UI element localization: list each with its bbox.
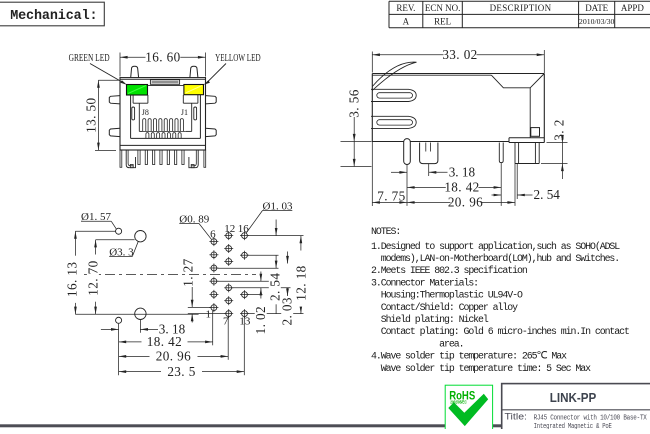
svg-text:ECN NO.: ECN NO. <box>425 3 461 13</box>
svg-text:2.Meets IEEE 802.3 specificati: 2.Meets IEEE 802.3 specification <box>371 265 528 276</box>
svg-text:REV.: REV. <box>396 3 415 13</box>
svg-text:Wave solder tip temperature ti: Wave solder tip temperature time: 5 Sec … <box>371 363 591 374</box>
svg-text:1. 02: 1. 02 <box>253 306 268 334</box>
svg-text:13. 50: 13. 50 <box>84 98 99 133</box>
svg-text:DESCRIPTION: DESCRIPTION <box>490 3 552 13</box>
svg-text:Mechanical:: Mechanical: <box>10 9 97 24</box>
svg-text:20. 96: 20. 96 <box>448 195 483 210</box>
svg-text:Housing:Thermoplastic UL94V-O: Housing:Thermoplastic UL94V-O <box>371 290 523 301</box>
svg-text:NOTES:: NOTES: <box>371 226 400 237</box>
svg-text:APPD: APPD <box>621 3 645 13</box>
svg-text:18. 42: 18. 42 <box>147 334 182 349</box>
svg-text:3.Connector Materials:: 3.Connector Materials: <box>371 277 478 288</box>
svg-text:1.Designed to support applicat: 1.Designed to support application,such a… <box>371 241 620 252</box>
svg-text:3. 18: 3. 18 <box>449 164 476 179</box>
svg-text:1. 27: 1. 27 <box>181 258 196 286</box>
svg-text:RJ45 Connector with 10/100 Bas: RJ45 Connector with 10/100 Base-TX <box>534 414 648 422</box>
svg-text:REL: REL <box>434 16 451 26</box>
svg-text:Shield plating: Nickel: Shield plating: Nickel <box>371 314 489 325</box>
svg-text:modems),LAN-on-Motherboard(LOM: modems),LAN-on-Motherboard(LOM),hub and … <box>371 253 619 264</box>
svg-text:12. 70: 12. 70 <box>85 260 100 295</box>
svg-text:LINK-PP: LINK-PP <box>550 390 597 405</box>
svg-text:Title:: Title: <box>505 412 528 422</box>
svg-text:GREEN LED: GREEN LED <box>69 53 110 64</box>
svg-text:13: 13 <box>239 316 251 328</box>
svg-text:23. 5: 23. 5 <box>167 364 195 379</box>
svg-text:20. 96: 20. 96 <box>156 349 191 364</box>
svg-text:16. 13: 16. 13 <box>64 262 79 297</box>
svg-text:16: 16 <box>238 223 250 235</box>
svg-text:area.: area. <box>371 338 463 349</box>
svg-text:J8: J8 <box>142 108 149 117</box>
svg-text:18. 42: 18. 42 <box>444 180 479 195</box>
svg-text:Contact plating: Gold 6 micro-: Contact plating: Gold 6 micro-inches min… <box>371 326 629 337</box>
svg-text:Contact/Shield: Copper alloy: Contact/Shield: Copper alloy <box>371 302 518 313</box>
svg-text:12: 12 <box>224 223 235 235</box>
svg-text:7. 75: 7. 75 <box>377 189 405 204</box>
svg-text:2010/03/30: 2010/03/30 <box>579 17 615 26</box>
svg-text:4.Wave solder tip temperature:: 4.Wave solder tip temperature: 265℃ Max <box>371 351 567 362</box>
svg-text:16. 60: 16. 60 <box>145 50 180 65</box>
svg-text:2. 54: 2. 54 <box>267 273 282 301</box>
svg-text:3. 2: 3. 2 <box>552 119 567 140</box>
svg-text:J1: J1 <box>181 108 188 117</box>
svg-text:YELLOW LED: YELLOW LED <box>215 53 261 64</box>
svg-text:A: A <box>403 16 410 26</box>
svg-text:3. 56: 3. 56 <box>346 89 361 117</box>
svg-text:33. 02: 33. 02 <box>442 47 477 62</box>
svg-text:DATE: DATE <box>585 3 608 13</box>
svg-text:Integrated Magnetic & PoE: Integrated Magnetic & PoE <box>534 423 613 429</box>
svg-text:12. 18: 12. 18 <box>293 265 308 300</box>
svg-text:2. 54: 2. 54 <box>534 187 561 202</box>
svg-text:1: 1 <box>206 309 212 321</box>
